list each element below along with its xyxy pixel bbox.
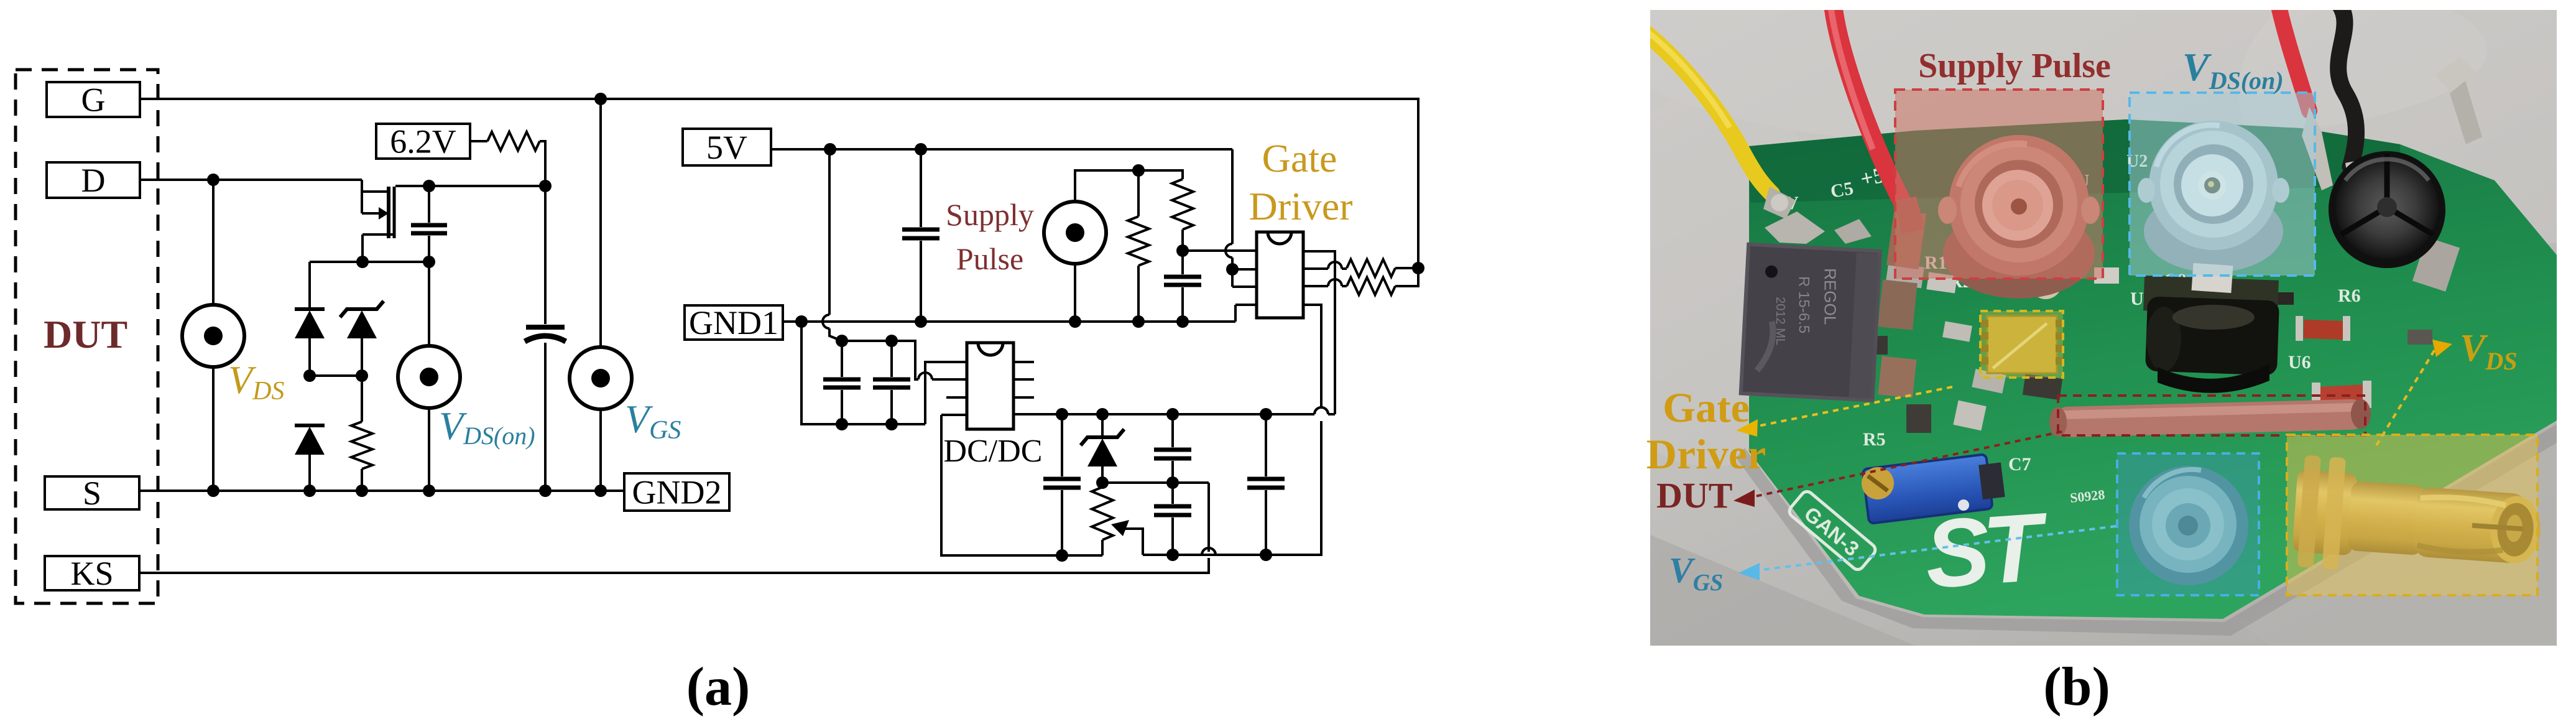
highlight gate driver chip [1980,311,2063,378]
node bus/C8 [1166,549,1179,561]
wire to resistor R3 [1137,170,1140,216]
node zener/resistor midpoint [356,369,368,382]
svg-text:R6: R6 [2338,285,2361,306]
terminal D [47,162,140,198]
node cap bus/C6 [885,335,898,347]
green PCB board [1749,119,2557,619]
capacitor C8b [1154,504,1191,509]
zener diode Z2 [1081,429,1124,445]
wire R1 to drain node [540,141,545,186]
wire KS vertical above hop [1207,483,1210,552]
trimmer wiper arrow [1111,520,1129,536]
node Q1 source junction [356,256,369,268]
svg-text:KS: KS [70,555,113,592]
svg-text:R 15-6.5: R 15-6.5 [1796,276,1812,333]
svg-text:6.2V: 6.2V [390,123,456,160]
wire C8a to middle bus [1171,461,1174,483]
wire D2 to S row [308,455,311,491]
terminal KS [45,556,139,590]
wire VGS to S row [599,409,602,491]
svg-text:Supply: Supply [946,197,1034,232]
wire Z1 to R2 [361,338,363,376]
capacitor C7 [1043,477,1081,481]
node GND1/dcdc cap branch [795,315,808,328]
wire DCDC pin3 stub [946,396,967,399]
svg-text:GND2: GND2 [632,473,722,511]
highlight VDSon [2130,93,2315,276]
wire pin2 gate driver [1232,268,1257,271]
yellow wire [1643,31,1772,194]
node 5V/dcdc branch [824,143,836,155]
wire C7 to neg rail [1061,490,1063,555]
wire trimmer bottom to neg rail [1101,540,1104,555]
node out/C9 [1260,408,1272,420]
svg-text:U6: U6 [2288,352,2311,373]
capacitor C4 [1164,275,1201,279]
wire DCDC neg rail to trimmer [941,415,1102,555]
svg-text:DUT: DUT [44,312,127,356]
svg-text:D: D [81,162,106,199]
wire G net: G box to gate resistor node [140,99,1418,268]
wire out to capacitor C7 [1061,414,1063,476]
resistor R4 [1172,179,1193,230]
transistor Q1 clamp MOSFET [361,180,363,213]
wire gate driver out2 [1303,285,1328,287]
BNC connector VGS bottom [2129,466,2248,585]
wire pin3 gate driver [1232,285,1257,288]
red and black wires top right [2278,4,2309,111]
node bus/C9 [1260,549,1272,561]
node D junction [207,174,219,186]
photo of evaluation board [1573,0,2576,646]
supply 5V [683,129,771,165]
svg-text:Supply Pulse: Supply Pulse [1918,47,2111,85]
wire pulse source to GND1 [1074,264,1076,322]
node 5V/C3 branch [915,143,927,155]
wire GND1 bus [783,320,1235,323]
capacitor C1 [411,223,447,228]
wire R3 to GND1 [1137,266,1140,322]
wire out to capacitor C8a [1171,414,1174,447]
wire Q1 drain row [395,185,545,187]
svg-text:REGOL: REGOL [1821,268,1839,325]
node gate resistor junction [1412,262,1424,274]
node pulse top/R3 [1132,164,1145,177]
node R4/C4/pin1 [1176,244,1189,257]
wire out to zener Z2 [1101,414,1104,435]
node GND1/C4 [1176,315,1189,328]
wire to DCDC pin2 [932,378,967,381]
resistor R6 gate off [1347,277,1395,295]
supply 6.2V [376,124,470,159]
svg-text:5V: 5V [706,129,747,166]
red wire left [1833,5,1904,205]
wire VDS(on) to S row [428,408,430,491]
svg-text:DUT: DUT [1656,475,1732,516]
wire C9 to bottom bus [1265,490,1267,555]
GAN-3 silkscreen box [1787,489,1878,572]
capacitor C5 [823,378,861,382]
node S junction at D2 [303,485,316,497]
wire gate driver VDD pin to DCDC output [1303,251,1335,414]
node S junction at R2 [356,485,368,497]
wire DCDC pin4 [941,414,967,416]
wire DCDC pin8 stub [1013,361,1034,363]
wire C6 to lower bus [890,390,893,424]
wire R4 to gate driver pin1 [1181,230,1184,251]
wire D1 to D2 [308,338,311,376]
REGOL isolated DC/DC module [1741,244,1881,401]
resistor R3 [1128,216,1149,266]
node drain/R 6.2V junction [539,180,552,192]
node out/C7 [1056,408,1068,420]
wire pulse source top to R4 [1075,170,1183,202]
wire diode chain cross link [310,374,362,377]
terminal G [47,82,140,117]
wire drain node to capacitor C2 [544,186,547,324]
node GND1/pulse source [1069,315,1081,328]
wire R6 to gate node [1395,268,1418,286]
wire dcdc input cap bus [842,341,918,379]
svg-text:ST: ST [1922,493,2053,608]
svg-text:Gate: Gate [1663,384,1750,431]
svg-text:Gate: Gate [1262,136,1337,180]
svg-text:Driver: Driver [1646,430,1766,478]
wire to capacitor C6 [890,341,893,377]
node dcdc cap bus left [836,335,848,347]
highlight VGS [2117,453,2259,595]
electrolytic capacitor [2329,151,2445,268]
svg-text:Driver: Driver [1249,184,1352,228]
node middle bus/C8 [1166,476,1179,489]
wire middle bus to KS [1102,481,1209,484]
capacitor C2 polarized [526,325,565,330]
wire clamp bus [310,261,429,263]
capacitor C6 [873,378,910,382]
wire VDS source to S row [212,367,215,491]
node drain/C1 junction [423,180,435,192]
wire 5V to gate driver VDD [1231,149,1234,244]
svg-text:S: S [83,475,101,512]
wire DCDC pin6 stub [1013,396,1034,399]
highlight VDS [2287,435,2537,595]
diode D2 [295,424,325,427]
wire DCDC pin7 stub [1013,378,1034,381]
node middle bus/Z2/trimmer [1096,476,1109,489]
wire D node to VDS source [212,180,215,305]
probe source VGS [570,347,632,409]
probe source VDSon [398,346,460,408]
op-amp U1 gate driver IC [1257,232,1303,318]
node S junction at VGS [594,485,607,497]
resistor R2 [351,422,372,469]
BNC connector supply pulse [1943,209,2095,299]
wire R5 to gate node [1395,267,1418,269]
node lower bus/C5 [836,418,848,430]
source Supply Pulse generator [1044,202,1106,264]
svg-text:Pulse: Pulse [956,241,1023,276]
zener diode Z1 [340,301,384,317]
wire S net: S box to GND2 [139,490,624,492]
node diode chain midpoint [303,369,316,382]
wire C5 to lower bus [841,390,843,424]
blue trimmer potentiometer [1863,452,2006,523]
resistor R5 gate on [1347,259,1395,277]
highlight supply pulse [1895,90,2103,279]
wire bus to diode D1 [308,262,311,309]
svg-text:C7: C7 [2008,454,2031,475]
wire G row to VGS source [599,99,602,347]
wire C3 to GND1 [920,241,922,322]
wire GND1 to DCDC gnd bus [801,322,925,424]
wire gate driver pin8 down [1303,305,1321,407]
wire gate driver out1 [1303,267,1328,270]
wire C4 to GND1 [1181,287,1184,322]
terminal S [45,476,139,509]
svg-text:G: G [81,81,106,118]
node out/Z2 [1096,408,1109,420]
wire Z2 to middle bus [1101,466,1104,483]
node GND1/R3 [1132,315,1145,328]
wire 5V to DCDC input [828,149,831,315]
wire KS net: KS box to trimmer net [139,558,1209,573]
wire 5V to capacitor C3 [920,149,922,227]
wire 5V row [771,148,1232,151]
svg-text:(b): (b) [2043,657,2110,717]
pink cylindrical resistor over DUT [2049,399,2371,438]
svg-text:2012 ML: 2012 ML [1773,297,1787,345]
wire to capacitor C5 [841,341,843,377]
svg-text:(a): (a) [686,657,750,717]
wire pin8 to trimmer wiper bus [1143,421,1321,555]
wire bus to VDS(on) source [428,262,430,346]
wire gate driver gnd pin [1235,304,1257,306]
node G junction [594,93,607,105]
resistor R7 trimmer [1092,487,1113,540]
terminal GND1 [685,305,783,340]
node S junction at VDSon [423,485,435,497]
capacitor C8a [1154,448,1191,452]
gold SMA connector VDS [2291,455,2545,583]
svg-text:C5: C5 [1829,178,1855,202]
wire out to capacitor C9 [1265,414,1267,476]
node S junction at VDS [207,485,219,497]
probe source VDS [182,305,244,367]
node bus/C1 junction [423,256,435,268]
op-amp U2 DC/DC converter IC [967,343,1013,429]
diode D1 [295,307,325,311]
svg-text:R5: R5 [1863,429,1886,450]
node neg rail/C7 [1056,549,1068,562]
wire R2 to S row [361,469,363,491]
node gate driver pin2 [1226,263,1239,276]
gold gate driver chip [1987,316,2057,373]
BNC connector VDSon [2144,190,2283,272]
node out/C8 [1166,408,1179,420]
wire node to capacitor C4 [1181,251,1184,274]
terminal GND2 [624,473,729,511]
resistor R1 6.2V series [487,132,540,151]
wire Q1 source lead [362,233,395,236]
svg-text:DC/DC: DC/DC [944,434,1043,469]
wire C8b to bottom bus [1171,517,1174,555]
wire to resistor R2 [361,376,363,422]
node lower bus/C6 [885,418,898,430]
wire DCDC pin1 gnd [925,362,967,424]
wire D net: D box to clamp MOSFET gate [140,179,362,181]
black inductor/connector center [2143,276,2279,315]
wire trimmer wiper to bus [1124,529,1143,555]
wire 6.2V to resistor R1 [470,140,487,142]
wire drain to capacitor C1 [428,186,430,223]
capacitor C3 [902,228,939,232]
wire pin1 gate driver [1183,249,1257,252]
wire DCDC output bus [1013,413,1314,415]
svg-text:GND1: GND1 [689,304,778,341]
capacitor C9 [1247,477,1285,481]
DUT dashed outline box [16,70,158,603]
wire middle bus to capacitor C8b [1171,483,1174,504]
wire C1 to clamp bus [428,236,430,262]
node S junction at C2 [539,485,552,497]
node GND1/C3 [915,315,927,328]
